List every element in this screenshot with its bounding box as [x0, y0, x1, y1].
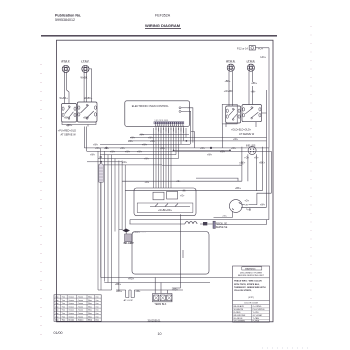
scan artifact dot columns (decorative) [41, 26, 311, 348]
wire: switch feeds turning into harness [84, 127, 86, 152]
labels on feeder 3 [116, 290, 141, 302]
svg-text:RT.R.R.: RT.R.R. [226, 60, 235, 64]
terminal block TB1 [153, 294, 173, 302]
svg-text:p.494% .........: p.494% ......... [133, 232, 147, 234]
wire: bottom feeder 2 [104, 283, 210, 294]
svg-text:+O+: +O+ [244, 200, 249, 203]
svg-text:W+BK+: W+BK+ [60, 97, 69, 100]
right vertical rails [267, 148, 272, 220]
svg-text:#xxax: #xxax [68, 320, 75, 322]
svg-text:#xaxx: #xaxx [78, 303, 84, 305]
indicator light L1 [246, 144, 256, 154]
svg-text:W+BK: W+BK [81, 77, 88, 80]
svg-text:#xxax: #xxax [68, 313, 74, 315]
svg-text:+BK+: +BK+ [235, 187, 242, 190]
surface unit LF (burner circle) [81, 60, 89, 73]
latch box inner detail row [137, 203, 193, 213]
svg-text:OB: OB [245, 205, 249, 207]
junction node A [106, 147, 108, 149]
svg-text:+W+: +W+ [251, 91, 257, 94]
svg-text:#xaxx: #xaxx [78, 310, 84, 312]
svg-text:+O+: +O+ [180, 196, 185, 198]
svg-text:+W+: +W+ [233, 139, 239, 141]
bracket around indicator [242, 147, 263, 191]
wire: LF burner leads down to switch S2 [84, 69, 92, 102]
svg-text:+W+: +W+ [120, 148, 126, 150]
svg-text:1 3 5 7 9 11 13 15: 1 3 5 7 9 11 13 15 [155, 120, 169, 122]
svg-text:AT SERVE W: AT SERVE W [239, 133, 255, 136]
svg-text:(STP): (STP) [248, 297, 254, 299]
junction dot on N run [229, 150, 231, 152]
harness vertical bundle [98, 148, 125, 290]
infinite switch S2 (LF) [77, 102, 97, 122]
svg-text:+W+: +W+ [125, 151, 131, 153]
svg-text:YELLOW STRIPE,: YELLOW STRIPE, [234, 290, 252, 292]
svg-text:+W+: +W+ [220, 151, 226, 153]
infinite switch S4 (LR) [242, 105, 262, 122]
wire: indicator to harness left [122, 181, 262, 191]
svg-text:#xaxx: #xaxx [78, 300, 84, 302]
svg-text:+O+: +O+ [254, 157, 259, 160]
svg-text:BEFORE SERVICING UNIT: BEFORE SERVICING UNIT [238, 275, 265, 277]
wire: lamp feed down right side [267, 48, 270, 150]
svg-text:RT.R.F.: RT.R.F. [62, 60, 71, 64]
wire: sensor drop [119, 230, 126, 234]
infinite switch S3 (RR) [226, 106, 241, 123]
svg-text:ELECTRONIC OVEN CONTROL: ELECTRONIC OVEN CONTROL [132, 105, 169, 108]
surface unit RR (burner circle) [226, 60, 235, 72]
svg-text:+O+: +O+ [176, 180, 181, 183]
broil element hatched bar [213, 221, 215, 228]
svg-text:W+BK+: W+BK+ [84, 97, 93, 100]
svg-text:+BK+: +BK+ [259, 161, 266, 164]
svg-text:+W+: +W+ [222, 216, 227, 218]
svg-text:01/00: 01/00 [54, 331, 63, 335]
svg-text:COLOR CODE: COLOR CODE [244, 302, 259, 304]
svg-text:+W+: +W+ [142, 144, 148, 146]
legend / warning box [233, 266, 270, 323]
broil coil symbol [185, 222, 197, 224]
junction dot [186, 140, 188, 142]
bracket around right switches [222, 104, 237, 124]
svg-text:+W+: +W+ [182, 190, 188, 193]
capacitor bars [200, 222, 213, 225]
svg-text:#xaxx: #xaxx [78, 320, 85, 322]
wire labels in harness [90, 134, 239, 164]
svg-text:+W+: +W+ [95, 148, 101, 150]
svg-text:+PU+RED+OLD: +PU+RED+OLD [58, 129, 76, 132]
EOC right-side terminals [179, 107, 187, 113]
svg-text:HO+: HO+ [261, 55, 267, 59]
svg-text:+O+: +O+ [145, 181, 150, 184]
svg-text:+W+: +W+ [135, 290, 141, 293]
svg-text:+RD+: +RD+ [66, 124, 73, 127]
oven cavity enclosure [132, 232, 209, 275]
svg-text:+BK+: +BK+ [225, 80, 232, 83]
svg-text:+W+: +W+ [150, 141, 156, 143]
svg-text:+W+: +W+ [104, 148, 110, 150]
svg-text:+O+: +O+ [244, 157, 249, 160]
svg-text:+BK+: +BK+ [251, 82, 258, 85]
svg-text:+W+RD: +W+RD [224, 90, 233, 93]
svg-text:TERM BLK: TERM BLK [154, 303, 166, 306]
svg-text:#xxax: #xxax [68, 310, 74, 312]
terminal labels under S1/S2 [62, 116, 96, 127]
wire: broil return [217, 220, 267, 225]
svg-text:10: 10 [158, 332, 162, 336]
oven light terminal [246, 208, 251, 212]
wire: RR burner leads down to switch S3 [229, 71, 233, 105]
schematic border frame [57, 40, 274, 322]
junction dot on L1 run [210, 147, 212, 149]
junction node B [100, 156, 102, 158]
svg-text:WITH TRCR, STRIPE BLK,: WITH TRCR, STRIPE BLK, [234, 284, 260, 286]
svg-text:+W+: +W+ [110, 151, 116, 153]
svg-text:#xaxx: #xaxx [78, 316, 84, 318]
svg-text:SERVE SE: SERVE SE [216, 227, 228, 229]
svg-text:+BK+: +BK+ [116, 290, 123, 293]
svg-text:TRACE WRG : WRE COLOR: TRACE WRG : WRE COLOR [234, 280, 262, 283]
svg-text:FEF352A: FEF352A [155, 14, 171, 18]
svg-text:+W+: +W+ [90, 155, 96, 157]
wiring code table [54, 295, 101, 322]
oven light filament nubs [232, 203, 241, 210]
svg-text:+W+BK+RD+: +W+BK+RD+ [158, 210, 173, 212]
infinite switch S1 (RF) [62, 104, 77, 123]
wire: RF burner leads down to switch S1 [64, 72, 69, 103]
svg-text:+W+: +W+ [137, 151, 143, 153]
header rule [41, 35, 277, 37]
wire: bottom feeder 1 [101, 278, 232, 294]
svg-text:#xaxx: #xaxx [78, 296, 84, 298]
svg-text:+W+: +W+ [231, 148, 237, 150]
svg-text:+W+: +W+ [200, 148, 206, 150]
wire: S4 to right rail [262, 112, 267, 114]
fuse capsule F1 in harness [99, 161, 104, 290]
harness horizontal runs [84, 134, 271, 165]
junction dot [173, 150, 175, 152]
svg-text:+W+: +W+ [93, 144, 99, 146]
svg-text:+O+: +O+ [239, 163, 244, 165]
svg-text:WARNING: WARNING [245, 267, 256, 270]
svg-text:316255101: 316255101 [148, 319, 162, 323]
svg-text:+RD+: +RD+ [128, 277, 135, 280]
svg-text:AT SERVE W: AT SERVE W [61, 134, 77, 137]
fuse label and wire to right rail [255, 46, 269, 50]
svg-text:THERMOST- GREEN WRE WITH: THERMOST- GREEN WRE WITH [234, 287, 266, 289]
wire: oven light connections [214, 193, 272, 217]
svg-text:DISCONNECT POWER: DISCONNECT POWER [240, 272, 263, 274]
relay K1 [153, 192, 164, 200]
EOC connector pin header P1 [154, 120, 184, 126]
svg-text:#xaxx: #xaxx [78, 313, 84, 315]
terminal labels under S3/S4 [226, 122, 256, 132]
wire: indicator leads [248, 154, 256, 191]
wire: right side drop to terminal area [172, 214, 183, 288]
surface unit RF (burner circle) [62, 60, 71, 73]
svg-text:WIRING DIAGRAM: WIRING DIAGRAM [145, 23, 181, 28]
wire: switch S3 feed down to run [191, 124, 223, 148]
oven sensor probe diamond [123, 229, 130, 232]
relay K2 [167, 191, 178, 199]
svg-text:+W+: +W+ [128, 141, 134, 143]
oven sensor hatched body [125, 234, 133, 242]
svg-text:+W+: +W+ [130, 138, 136, 140]
svg-text:#xxax: #xxax [68, 300, 74, 302]
wire: LR burner leads down to switch S4 [249, 71, 253, 104]
svg-text:#xxax: #xxax [68, 306, 74, 308]
svg-text:5995384012: 5995384012 [55, 18, 75, 22]
svg-text:+BK+: +BK+ [115, 283, 122, 286]
surface unit LR (burner circle) [247, 60, 256, 72]
wire labels on returns [145, 180, 188, 193]
svg-text:LT.R.R.: LT.R.R. [247, 60, 256, 64]
svg-text:+O+: +O+ [258, 46, 264, 50]
svg-text:#xaxx: #xaxx [78, 306, 84, 308]
oven lamp fixture box top right [237, 46, 255, 51]
svg-text:#xxax: #xxax [68, 296, 74, 298]
svg-text:+BK+: +BK+ [83, 116, 90, 119]
electronic oven control EOC box [125, 101, 190, 127]
door latch relay box [134, 188, 196, 216]
svg-text:#xxax: #xxax [68, 303, 74, 305]
svg-text:GY+GRAY: GY+GRAY [253, 314, 263, 317]
indicator lead labels [239, 157, 265, 165]
svg-text:+W+: +W+ [139, 134, 145, 136]
lamp lead labels [222, 205, 248, 218]
svg-text:AT LOOP: AT LOOP [124, 299, 134, 302]
wire: broil circuit run [130, 220, 269, 224]
svg-text:+BK+: +BK+ [64, 116, 71, 119]
svg-text:P.12 or 14: P.12 or 14 [237, 47, 248, 50]
wire: EOC outputs to latch box [154, 128, 187, 188]
svg-text:LT.R.F.: LT.R.F. [81, 60, 89, 64]
svg-text:+OLD+ELD+OLD+: +OLD+ELD+OLD+ [231, 128, 252, 131]
svg-text:*+B: *+B [246, 208, 251, 212]
svg-text:#xxax: #xxax [68, 316, 74, 318]
svg-text:+W+: +W+ [122, 162, 128, 164]
latch box inner contacts [150, 196, 190, 212]
oven light L2 [229, 200, 242, 213]
wire: EOC pins drop to harness [156, 126, 184, 133]
wire labels near bend [235, 187, 266, 206]
svg-text:+W+: +W+ [144, 159, 150, 161]
svg-text:+W+: +W+ [260, 204, 266, 207]
wire: EOC right side to rails [187, 108, 193, 145]
svg-text:+W+: +W+ [207, 155, 213, 157]
svg-text:BK-AMP: BK-AMP [124, 242, 134, 245]
wire: latch box to indicator return [196, 178, 238, 181]
svg-text:T+TAN: T+TAN [253, 317, 260, 320]
wire: bottom feeder 3 with loops [98, 290, 183, 298]
svg-text:+W+: +W+ [148, 138, 154, 140]
